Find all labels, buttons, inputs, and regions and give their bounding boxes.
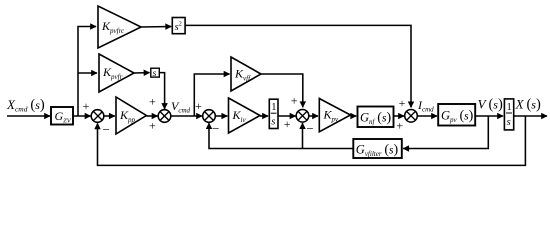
- block integrator 1/s: [269, 99, 278, 128]
- summing junction S1: [91, 110, 104, 123]
- wire G_vfilter to summing junction S3 bottom: [209, 123, 353, 148]
- summing junction S2: [158, 110, 171, 123]
- svg-text:Gpv (s): Gpv (s): [441, 109, 474, 125]
- gain K_vff: [231, 57, 261, 91]
- wire V_cmd node riser to K_vff: [194, 74, 229, 116]
- wire K_pv to G_nf: [351, 115, 357, 117]
- wire G_nf to summing junction S5: [394, 115, 405, 117]
- wire S4 to K_pv: [308, 115, 318, 117]
- svg-text:s: s: [271, 117, 275, 128]
- gain K_pvfrc: [98, 6, 141, 48]
- block integrator 1/s output: [504, 99, 513, 130]
- svg-text:+: +: [284, 117, 291, 131]
- wire V(s) node to G_vfilter: [403, 116, 488, 149]
- block s^2: [172, 18, 185, 34]
- wire feedforward riser to K_pvfrc: [78, 27, 96, 117]
- svg-text:X (s): X (s): [515, 97, 541, 113]
- wire G_pv to integrator 1/s with node V(s): [475, 115, 503, 117]
- svg-text:V (s): V (s): [478, 97, 503, 113]
- gain K_pp: [116, 97, 146, 134]
- block s: [151, 68, 160, 79]
- summing junction S3: [203, 110, 216, 123]
- block G_nf(s): [358, 107, 394, 128]
- wire S2 to summing junction S3: [170, 115, 202, 117]
- wire K_vff to summing junction S4 top: [261, 74, 303, 107]
- svg-text:−: −: [306, 121, 313, 136]
- wire G_ZV to summing junction S1: [73, 115, 91, 117]
- svg-text:−: −: [103, 122, 110, 137]
- input wire X_cmd(s) to G_ZV: [7, 115, 50, 117]
- svg-text:Gnf (s): Gnf (s): [360, 111, 391, 127]
- wire K_iv to integrator 1/s: [260, 115, 268, 117]
- wire 1/s to summing junction S4: [278, 115, 296, 117]
- wire s^2 to summing junction S5 top: [185, 25, 411, 107]
- summing junction S5: [405, 110, 418, 123]
- svg-text:1: 1: [271, 102, 276, 113]
- wire K_pp to summing junction S2: [146, 115, 157, 117]
- wire S5 to G_pv with node I_cmd: [417, 115, 437, 117]
- svg-text:−: −: [212, 121, 219, 136]
- svg-text:+: +: [195, 99, 202, 113]
- wire K_pvfr to s block: [134, 72, 150, 74]
- svg-text:+: +: [149, 119, 156, 133]
- block G_vfilter(s): [353, 139, 402, 158]
- svg-text:s: s: [507, 117, 511, 128]
- svg-text:+: +: [149, 95, 156, 109]
- svg-text:s: s: [153, 69, 157, 79]
- block G_pv(s): [438, 104, 475, 126]
- svg-text:+: +: [83, 99, 90, 113]
- wire velocity feedback branch to summing junction S4 bottom: [302, 123, 304, 148]
- wire feedforward branch to K_pvfr: [78, 72, 97, 74]
- svg-text:1: 1: [507, 102, 512, 113]
- gain K_iv: [229, 98, 261, 133]
- output wire X(s): [514, 115, 547, 117]
- wire S1 to K_pp: [103, 115, 115, 117]
- gain K_pvfr: [99, 54, 134, 92]
- wire S3 to K_iv: [215, 115, 228, 117]
- svg-text:+: +: [399, 96, 406, 110]
- wire K_pvfrc to s^2 block: [141, 26, 171, 29]
- wire X(s) node position feedback to summing junction S1 bottom: [98, 116, 526, 165]
- gain K_pv: [319, 99, 350, 132]
- svg-text:+: +: [291, 93, 298, 107]
- svg-text:+: +: [396, 119, 403, 133]
- block G_ZV: [51, 107, 73, 125]
- summing junction S4: [296, 110, 309, 123]
- wire s block to summing junction S2 top: [159, 73, 164, 109]
